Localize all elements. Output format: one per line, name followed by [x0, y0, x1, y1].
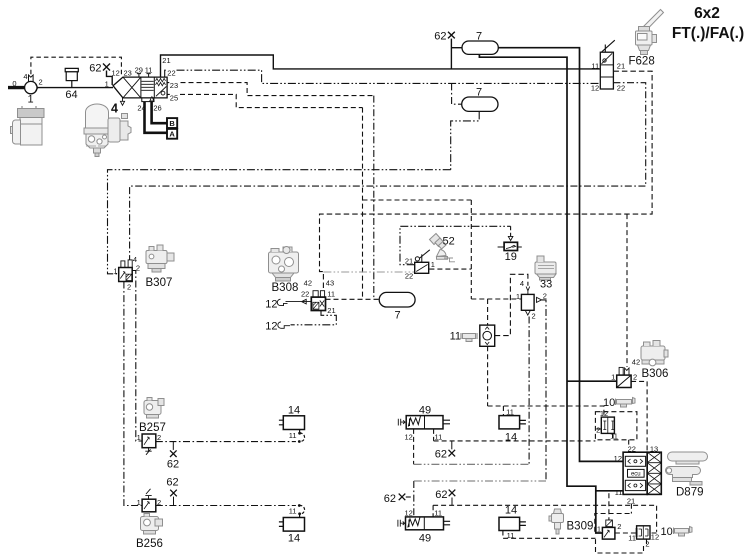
- svg-text:12: 12: [265, 299, 277, 311]
- svg-text:2: 2: [532, 312, 536, 321]
- svg-text:21: 21: [327, 306, 335, 315]
- svg-text:0: 0: [12, 79, 16, 88]
- svg-text:11: 11: [145, 66, 153, 75]
- svg-text:62: 62: [434, 31, 446, 43]
- svg-text:11: 11: [591, 62, 599, 71]
- svg-text:64: 64: [65, 89, 77, 101]
- svg-text:2: 2: [157, 498, 161, 507]
- svg-text:21: 21: [405, 256, 413, 265]
- svg-text:11: 11: [289, 507, 297, 516]
- svg-text:11: 11: [327, 289, 335, 298]
- svg-text:2: 2: [127, 283, 131, 292]
- svg-text:B: B: [169, 119, 175, 128]
- svg-text:1: 1: [611, 373, 615, 382]
- svg-text:49: 49: [419, 405, 431, 417]
- svg-text:19: 19: [505, 251, 517, 263]
- svg-text:21: 21: [162, 56, 170, 65]
- svg-text:B308: B308: [272, 282, 299, 294]
- svg-text:1: 1: [137, 498, 141, 507]
- svg-text:23: 23: [170, 81, 178, 90]
- svg-text:1: 1: [105, 80, 109, 89]
- svg-text:13: 13: [650, 444, 658, 453]
- svg-text:10: 10: [603, 397, 615, 409]
- svg-text:42: 42: [632, 358, 640, 367]
- svg-text:62: 62: [89, 63, 101, 75]
- svg-text:62: 62: [167, 459, 179, 471]
- svg-text:12: 12: [600, 409, 608, 418]
- svg-text:7: 7: [476, 87, 482, 99]
- svg-text:23: 23: [124, 69, 132, 78]
- svg-text:4: 4: [520, 279, 524, 288]
- svg-text:D879: D879: [676, 487, 704, 499]
- svg-text:12: 12: [265, 321, 277, 333]
- svg-text:12: 12: [112, 69, 120, 78]
- svg-text:F628: F628: [629, 56, 655, 68]
- svg-text:14: 14: [288, 405, 300, 417]
- svg-text:62: 62: [384, 493, 396, 505]
- svg-text:2: 2: [136, 263, 140, 272]
- svg-text:4: 4: [23, 72, 27, 81]
- svg-text:B306: B306: [642, 368, 669, 380]
- svg-text:22: 22: [617, 83, 625, 92]
- svg-text:22: 22: [405, 271, 413, 280]
- svg-text:12: 12: [651, 533, 659, 542]
- svg-text:10: 10: [661, 526, 673, 538]
- svg-text:6x2: 6x2: [694, 5, 720, 22]
- svg-text:22: 22: [167, 69, 175, 78]
- svg-text:24: 24: [137, 104, 145, 113]
- svg-text:ecu: ecu: [631, 471, 641, 477]
- svg-text:11: 11: [450, 331, 461, 343]
- svg-text:2: 2: [596, 426, 600, 435]
- svg-text:12: 12: [405, 508, 413, 517]
- svg-text:B257: B257: [139, 422, 166, 434]
- svg-text:12: 12: [591, 83, 599, 92]
- svg-text:2: 2: [633, 373, 637, 382]
- svg-text:25: 25: [170, 94, 178, 103]
- svg-text:14: 14: [505, 505, 517, 517]
- svg-text:B256: B256: [136, 538, 163, 550]
- svg-text:FT(.)/FA(.): FT(.)/FA(.): [672, 25, 744, 42]
- svg-text:1: 1: [113, 266, 117, 275]
- svg-text:14: 14: [505, 432, 517, 444]
- svg-text:43: 43: [326, 279, 334, 288]
- svg-text:62: 62: [435, 489, 447, 501]
- svg-text:1: 1: [137, 433, 141, 442]
- svg-text:B309: B309: [567, 521, 594, 533]
- svg-text:11: 11: [615, 488, 623, 497]
- svg-text:22: 22: [301, 289, 309, 298]
- svg-text:52: 52: [443, 236, 455, 248]
- svg-text:62: 62: [166, 477, 178, 489]
- svg-text:14: 14: [288, 533, 300, 545]
- svg-text:42: 42: [304, 279, 312, 288]
- svg-text:11: 11: [610, 431, 618, 440]
- svg-text:33: 33: [540, 279, 552, 291]
- svg-text:11: 11: [289, 431, 297, 440]
- svg-text:22: 22: [628, 444, 636, 453]
- svg-text:21: 21: [627, 496, 635, 505]
- svg-text:62: 62: [435, 449, 447, 461]
- svg-text:A: A: [169, 130, 175, 139]
- svg-text:21: 21: [617, 62, 625, 71]
- svg-text:11: 11: [506, 407, 514, 416]
- svg-text:1: 1: [431, 260, 435, 269]
- svg-text:2: 2: [39, 78, 43, 87]
- svg-text:1: 1: [516, 292, 520, 301]
- svg-text:1: 1: [27, 94, 33, 106]
- svg-text:26: 26: [153, 104, 161, 113]
- svg-text:12: 12: [614, 454, 622, 463]
- svg-text:2: 2: [617, 522, 621, 531]
- svg-text:12: 12: [405, 433, 413, 442]
- svg-text:11: 11: [628, 533, 636, 542]
- svg-text:11: 11: [435, 433, 443, 442]
- svg-text:1: 1: [597, 525, 601, 534]
- svg-text:2: 2: [157, 433, 161, 442]
- svg-text:29: 29: [135, 66, 143, 75]
- svg-text:4: 4: [111, 102, 118, 116]
- svg-text:2: 2: [543, 292, 547, 301]
- svg-text:2: 2: [645, 539, 649, 548]
- svg-text:7: 7: [394, 310, 400, 322]
- svg-text:11: 11: [507, 531, 515, 540]
- svg-text:49: 49: [419, 533, 431, 545]
- svg-text:B307: B307: [146, 277, 173, 289]
- svg-text:11: 11: [434, 508, 442, 517]
- svg-text:7: 7: [476, 31, 482, 43]
